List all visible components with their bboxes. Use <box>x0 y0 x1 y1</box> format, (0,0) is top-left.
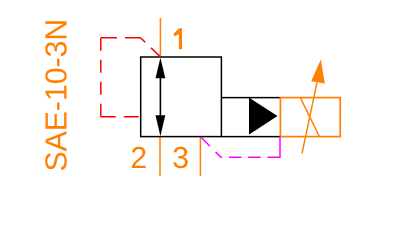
port 2 line <box>159 137 161 176</box>
pilot line red dashed: diagonal to port 1 <box>141 38 160 57</box>
check valve box top <box>221 97 280 99</box>
svg-text:SAE-10-3N: SAE-10-3N <box>41 19 74 172</box>
svg-text:2: 2 <box>130 142 147 175</box>
pilot line magenta dashed: diagonal from port 3 <box>201 137 221 157</box>
valve body box <box>141 57 222 137</box>
pilot line magenta dashed: bottom horizontal <box>220 156 280 158</box>
pilot line red dashed: top horizontal <box>100 37 141 39</box>
flow arrowhead down <box>156 115 166 136</box>
orifice diagonal <box>300 98 319 137</box>
flow arrowhead up <box>156 58 166 78</box>
port 1 line <box>159 18 161 57</box>
flow arrow shaft <box>159 76 161 118</box>
pilot line magenta dashed: vertical up to orifice <box>279 137 281 158</box>
pilot line red dashed: bottom horizontal to valve body <box>101 116 141 118</box>
check valve box bottom <box>221 136 280 138</box>
adjustment arrowhead <box>311 60 325 84</box>
orifice box <box>280 98 340 137</box>
pilot line red dashed: left vertical <box>100 38 102 117</box>
adjustment arrow line <box>302 83 317 154</box>
port label 1 <box>174 28 182 49</box>
check valve poppet triangle <box>249 98 278 135</box>
port 3 line <box>199 137 201 176</box>
svg-text:3: 3 <box>172 142 189 175</box>
